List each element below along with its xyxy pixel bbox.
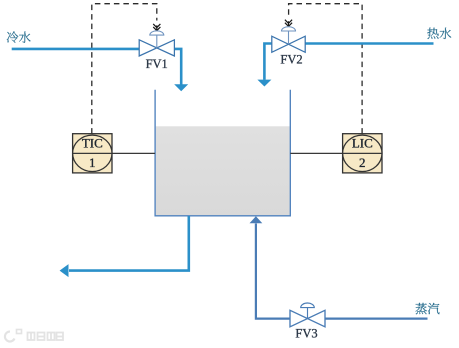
signal line LIC to FV2 (dashed) <box>289 4 363 134</box>
wire LIC to tank <box>290 152 382 154</box>
instrument LIC2 square <box>343 134 382 173</box>
valve FV1 body <box>139 40 174 56</box>
instrument TIC1 square <box>73 134 112 173</box>
svg-text:1: 1 <box>89 155 96 170</box>
svg-text:LIC: LIC <box>352 136 373 151</box>
instrument TIC1 mid line <box>73 152 112 154</box>
signal arrowhead at FV2 <box>285 20 292 27</box>
pipe steam in right <box>325 318 427 320</box>
label hot water 热 <box>427 28 451 39</box>
instrument LIC2 mid line <box>343 152 382 154</box>
label cold water 水 <box>19 32 31 43</box>
svg-text:FV2: FV2 <box>280 53 302 67</box>
signal arrowhead at FV1 <box>153 24 160 31</box>
pipe cold water in <box>12 48 140 51</box>
arrow into tank from FV1 <box>174 84 188 91</box>
label hot water 水 <box>440 28 452 39</box>
svg-text:FV1: FV1 <box>146 57 168 71</box>
svg-text:FV3: FV3 <box>295 327 317 341</box>
svg-text:2: 2 <box>359 155 366 170</box>
arrow outlet left <box>60 264 69 277</box>
label cold water 冷 <box>7 31 31 42</box>
watermark <box>5 330 63 342</box>
signal line TIC to FV1 (dashed) <box>92 4 157 134</box>
label steam 蒸 <box>416 303 440 314</box>
tank T1 walls <box>155 90 290 216</box>
pipe hot water out <box>305 42 433 45</box>
wire TIC to tank <box>73 152 156 154</box>
arrow steam into tank <box>250 216 263 223</box>
valve FV2 body <box>272 36 305 52</box>
valve FV2 actuator <box>288 31 290 44</box>
label steam 汽 <box>428 303 440 314</box>
arrow into tank from FV2 <box>257 80 271 87</box>
valve FV1 actuator <box>156 35 158 48</box>
pipe tank outlet <box>69 216 189 271</box>
valve FV3 actuator <box>307 308 309 319</box>
pipe steam FV3 to tank <box>256 224 290 319</box>
pipe FV1 outlet to tank <box>174 49 181 85</box>
tank T1 liquid fill <box>156 126 290 215</box>
svg-text:TIC: TIC <box>82 136 103 151</box>
instrument LIC2 circle <box>343 135 382 171</box>
instrument TIC1 circle <box>73 135 112 171</box>
pipe FV2 outlet to tank <box>264 44 271 80</box>
valve FV3 body <box>290 310 325 327</box>
